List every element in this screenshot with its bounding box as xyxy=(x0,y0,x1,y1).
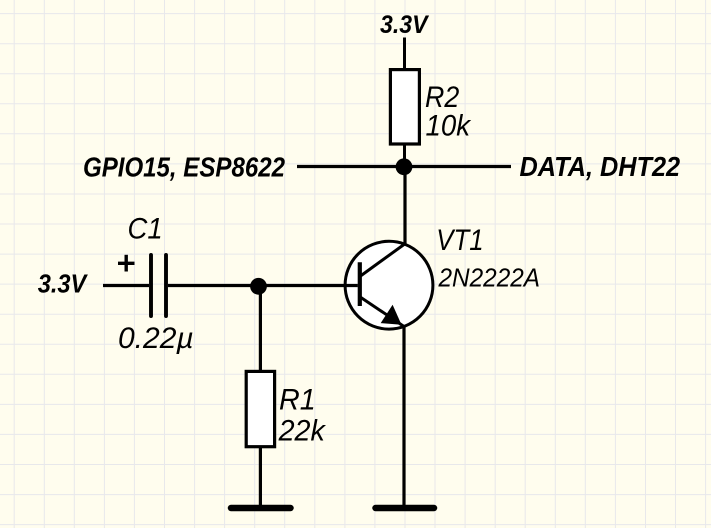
wire: 3.3V down to R2 top xyxy=(403,38,406,71)
capacitor polarity plus sign xyxy=(118,255,135,272)
wire: R2 bottom to node xyxy=(403,143,406,166)
svg-text:2N2222A: 2N2222A xyxy=(438,262,540,292)
transistor collector line xyxy=(360,244,405,277)
wire: 3.3V to C1 left plate xyxy=(103,284,149,287)
svg-text:3.3V: 3.3V xyxy=(38,269,89,299)
svg-text:VT1: VT1 xyxy=(436,224,483,257)
transistor emitter line xyxy=(360,297,404,327)
svg-text:DATA, DHT22: DATA, DHT22 xyxy=(520,151,681,182)
wire: node to DATA label xyxy=(404,165,511,168)
wire: node2 to transistor base xyxy=(259,284,358,287)
capacitor C1 right plate xyxy=(164,255,168,316)
wire: GPIO label to node xyxy=(297,165,404,168)
wire: node down to transistor collector xyxy=(403,167,406,244)
svg-text:0.22µ: 0.22µ xyxy=(118,322,194,355)
ground bar right xyxy=(376,505,435,512)
emitter arrowhead xyxy=(381,305,402,325)
wire: C1 right plate to node2 xyxy=(168,284,259,287)
svg-text:C1: C1 xyxy=(128,213,163,246)
svg-text:22k: 22k xyxy=(278,414,327,447)
resistor R1 xyxy=(246,371,274,446)
svg-text:R1: R1 xyxy=(279,384,316,417)
transistor VT1 body circle xyxy=(345,241,433,329)
resistor R2 xyxy=(390,70,419,144)
svg-text:GPIO15, ESP8622: GPIO15, ESP8622 xyxy=(83,152,285,183)
wire: node2 down to R1 top xyxy=(259,286,262,371)
transistor base bar xyxy=(358,262,362,306)
ground bar left xyxy=(231,505,291,512)
capacitor C1 left plate xyxy=(149,255,153,316)
node junction dot xyxy=(396,158,413,175)
wire: R1 bottom to ground xyxy=(259,447,262,506)
svg-text:10k: 10k xyxy=(426,110,472,143)
wire: emitter down to ground xyxy=(402,327,405,506)
node2 junction dot xyxy=(250,278,267,295)
svg-text:3.3V: 3.3V xyxy=(380,11,430,39)
